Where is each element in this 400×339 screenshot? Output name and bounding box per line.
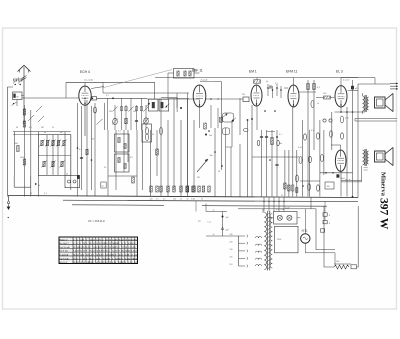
svg-text:4,7k: 4,7k [298, 147, 302, 149]
svg-text:150: 150 [230, 249, 233, 251]
svg-text:EL 3: EL 3 [336, 70, 343, 74]
svg-text:l.u.n.: l.u.n. [208, 222, 212, 224]
svg-text:EBF 11: EBF 11 [192, 69, 203, 73]
svg-text:4b: 4b [60, 132, 62, 134]
svg-text:100: 100 [150, 199, 153, 201]
svg-text:Ig2 S mA: Ig2 S mA [60, 257, 69, 260]
svg-text:240: 240 [230, 234, 233, 236]
svg-text:Ug2 Ik mA: Ug2 Ik mA [60, 246, 71, 249]
svg-text:EFM 11: EFM 11 [286, 70, 297, 74]
svg-text:5000: 5000 [20, 157, 24, 159]
svg-text:0,1: 0,1 [29, 127, 32, 129]
svg-text:1M: 1M [242, 94, 245, 96]
svg-text:50: 50 [218, 171, 220, 173]
svg-text:10p: 10p [210, 155, 213, 157]
svg-text:5k: 5k [180, 199, 182, 201]
svg-text:0,1-0,5: 0,1-0,5 [343, 80, 350, 82]
svg-text:Uk R kΩ: Uk R kΩ [60, 251, 68, 253]
svg-text:ECH 4: ECH 4 [80, 70, 90, 74]
svg-text:Minerva: Minerva [380, 172, 387, 197]
svg-text:Ia Ig2mA: Ia Ig2mA [60, 253, 69, 256]
svg-text:0,1: 0,1 [279, 134, 282, 136]
svg-text:zf-spule: zf-spule [201, 80, 209, 82]
svg-text:0,1: 0,1 [191, 199, 194, 201]
svg-text:1a: 1a [213, 209, 215, 211]
svg-text:100: 100 [173, 199, 176, 201]
svg-text:25: 25 [281, 195, 283, 197]
svg-text:50: 50 [187, 199, 189, 201]
svg-text:5M: 5M [197, 177, 200, 179]
svg-text:ZF = 468 kHz: ZF = 468 kHz [88, 219, 105, 223]
svg-text:2M: 2M [109, 111, 112, 113]
svg-text:50: 50 [16, 127, 18, 129]
svg-text:2M: 2M [41, 127, 44, 129]
svg-text:100: 100 [327, 186, 330, 188]
svg-text:397 W: 397 W [378, 198, 390, 230]
svg-text:4,7: 4,7 [106, 95, 109, 97]
svg-text:1k: 1k [52, 127, 54, 129]
svg-text:100: 100 [336, 261, 339, 263]
svg-text:110: 110 [91, 139, 94, 141]
svg-text:50: 50 [201, 199, 203, 201]
svg-text:6,3V 0,3A: 6,3V 0,3A [276, 208, 285, 211]
svg-text:pol.: pol. [198, 221, 201, 223]
svg-text:6k: 6k [38, 185, 40, 187]
svg-text:0,1: 0,1 [79, 149, 82, 151]
svg-text:AZ 11: AZ 11 [302, 229, 309, 232]
svg-text:Uf 6,3 V: Uf 6,3 V [60, 262, 68, 264]
svg-text:110: 110 [230, 264, 233, 266]
svg-text:220V: 220V [277, 239, 282, 241]
svg-text:0,1: 0,1 [156, 199, 159, 201]
svg-text:0,1: 0,1 [163, 199, 166, 201]
svg-text:32: 32 [102, 186, 104, 188]
svg-text:ant.-spule: ant.-spule [84, 79, 94, 82]
svg-text:125: 125 [230, 257, 233, 259]
svg-text:8: 8 [329, 223, 330, 225]
svg-text:0,1: 0,1 [44, 193, 47, 195]
svg-text:Ua Ug2 V: Ua Ug2 V [60, 243, 70, 245]
svg-text:2k: 2k [152, 134, 154, 136]
svg-text:1000: 1000 [14, 143, 18, 145]
svg-text:1k: 1k [317, 103, 319, 105]
svg-text:1a: 1a [213, 234, 215, 236]
svg-text:Röhre V: Röhre V [60, 239, 68, 241]
svg-text:4,7k: 4,7k [345, 118, 349, 120]
svg-text:8: 8 [329, 215, 330, 217]
svg-text:EM 1: EM 1 [249, 70, 257, 74]
svg-text:spule: spule [364, 169, 368, 171]
svg-text:1k: 1k [104, 167, 106, 169]
svg-text:25: 25 [30, 193, 32, 195]
svg-text:20: 20 [66, 173, 68, 175]
svg-text:220: 220 [230, 241, 233, 243]
